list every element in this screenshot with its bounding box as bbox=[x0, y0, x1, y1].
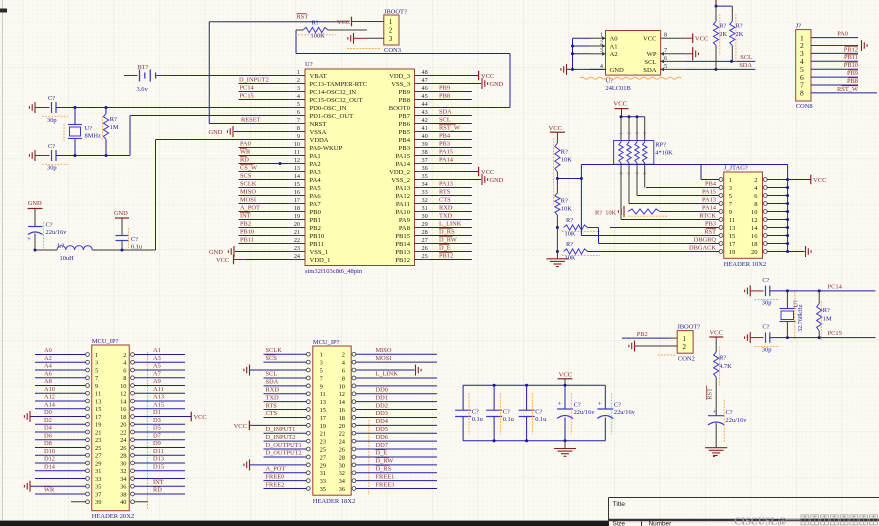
svg-text:17: 17 bbox=[320, 415, 327, 422]
svg-text:PA13: PA13 bbox=[439, 180, 453, 187]
svg-text:CON2: CON2 bbox=[678, 356, 695, 363]
svg-text:29: 29 bbox=[320, 462, 326, 469]
svg-text:1: 1 bbox=[683, 335, 687, 343]
svg-text:PA7: PA7 bbox=[310, 201, 322, 208]
svg-text:U?: U? bbox=[305, 61, 313, 68]
svg-text:PB14: PB14 bbox=[395, 241, 410, 248]
svg-text:VSS_1: VSS_1 bbox=[310, 249, 329, 256]
svg-text:3.6v: 3.6v bbox=[137, 86, 149, 93]
svg-text:PA14: PA14 bbox=[396, 161, 411, 168]
svg-text:PB10: PB10 bbox=[240, 228, 254, 235]
svg-text:D_INPUT1: D_INPUT1 bbox=[266, 426, 296, 433]
svg-text:D13: D13 bbox=[153, 456, 164, 463]
svg-text:3: 3 bbox=[297, 85, 300, 92]
svg-text:PB11: PB11 bbox=[844, 54, 858, 61]
svg-text:A8: A8 bbox=[44, 378, 52, 385]
svg-text:VDD_1: VDD_1 bbox=[310, 257, 331, 264]
svg-text:RST: RST bbox=[707, 388, 714, 400]
svg-text:24LC01B: 24LC01B bbox=[606, 85, 631, 92]
svg-text:PD1-OSC_OUT: PD1-OSC_OUT bbox=[310, 113, 354, 120]
svg-text:10: 10 bbox=[339, 383, 345, 390]
svg-text:35: 35 bbox=[95, 484, 101, 491]
svg-text:PB1: PB1 bbox=[310, 217, 321, 224]
svg-text:PB10: PB10 bbox=[310, 233, 325, 240]
svg-text:11: 11 bbox=[294, 149, 300, 156]
svg-text:13: 13 bbox=[95, 398, 101, 405]
svg-text:4: 4 bbox=[600, 63, 603, 70]
svg-text:SCLK: SCLK bbox=[266, 347, 283, 354]
svg-text:VCC: VCC bbox=[695, 36, 709, 43]
svg-text:MOSI: MOSI bbox=[376, 355, 392, 362]
svg-text:C?: C? bbox=[574, 401, 581, 408]
svg-text:48: 48 bbox=[422, 69, 428, 76]
svg-text:R?: R? bbox=[736, 23, 743, 30]
svg-text:11: 11 bbox=[320, 391, 326, 398]
svg-text:A2: A2 bbox=[44, 355, 52, 362]
svg-text:VSS_2: VSS_2 bbox=[391, 177, 410, 184]
svg-text:32: 32 bbox=[120, 468, 126, 475]
svg-text:22: 22 bbox=[120, 429, 126, 436]
svg-text:L_LINK: L_LINK bbox=[376, 371, 399, 378]
svg-text:8: 8 bbox=[664, 32, 667, 39]
svg-text:SDA: SDA bbox=[739, 62, 752, 69]
svg-text:Title: Title bbox=[613, 501, 626, 508]
svg-text:WR: WR bbox=[44, 487, 55, 494]
svg-text:Number: Number bbox=[649, 520, 673, 526]
svg-text:26: 26 bbox=[422, 245, 428, 252]
svg-text:C?: C? bbox=[472, 408, 479, 415]
svg-text:C?: C? bbox=[726, 409, 733, 416]
svg-text:INT: INT bbox=[153, 479, 164, 486]
svg-text:PA15: PA15 bbox=[439, 148, 453, 155]
svg-text:24: 24 bbox=[120, 437, 127, 444]
svg-text:CON8: CON8 bbox=[796, 103, 813, 110]
svg-text:20: 20 bbox=[120, 422, 126, 429]
svg-text:R?: R? bbox=[566, 217, 573, 224]
svg-text:26: 26 bbox=[339, 446, 345, 453]
svg-text:32: 32 bbox=[339, 470, 345, 477]
svg-text:1: 1 bbox=[297, 69, 300, 76]
svg-text:RP?: RP? bbox=[655, 142, 666, 149]
svg-text:18: 18 bbox=[339, 415, 345, 422]
svg-text:14: 14 bbox=[120, 398, 127, 405]
svg-text:40: 40 bbox=[120, 499, 126, 506]
svg-text:A1: A1 bbox=[153, 347, 161, 354]
svg-text:8: 8 bbox=[754, 201, 757, 208]
svg-text:4*10K: 4*10K bbox=[655, 149, 673, 156]
svg-text:FREE3: FREE3 bbox=[376, 481, 395, 488]
svg-text:L?: L? bbox=[58, 243, 65, 250]
svg-text:SDA: SDA bbox=[439, 108, 452, 115]
svg-text:A1: A1 bbox=[610, 43, 618, 50]
svg-text:RST: RST bbox=[704, 228, 716, 235]
svg-text:C?: C? bbox=[762, 277, 769, 284]
svg-text:+: + bbox=[27, 235, 31, 243]
svg-text:1: 1 bbox=[95, 352, 98, 359]
svg-text:D3: D3 bbox=[153, 417, 161, 424]
svg-text:D6: D6 bbox=[44, 432, 52, 439]
svg-text:C?: C? bbox=[762, 324, 769, 331]
svg-text:VCC: VCC bbox=[337, 19, 350, 26]
svg-text:10: 10 bbox=[120, 383, 126, 390]
svg-text:VCC: VCC bbox=[709, 330, 723, 337]
svg-text:5: 5 bbox=[320, 367, 323, 374]
svg-text:PB11: PB11 bbox=[240, 236, 254, 243]
svg-text:VCC: VCC bbox=[614, 101, 628, 108]
svg-text:PB8: PB8 bbox=[847, 78, 858, 85]
svg-text:22u/16v: 22u/16v bbox=[726, 417, 748, 424]
svg-text:D_OUTPUT1: D_OUTPUT1 bbox=[266, 442, 302, 449]
svg-text:PB4: PB4 bbox=[439, 132, 451, 139]
svg-text:9: 9 bbox=[95, 383, 98, 390]
svg-text:33: 33 bbox=[320, 478, 326, 485]
svg-text:7: 7 bbox=[297, 117, 300, 124]
svg-text:VCC: VCC bbox=[481, 169, 494, 176]
svg-text:PA9: PA9 bbox=[399, 217, 411, 224]
svg-text:2: 2 bbox=[754, 177, 757, 184]
svg-text:FREE2: FREE2 bbox=[266, 481, 285, 488]
svg-text:25: 25 bbox=[320, 446, 326, 453]
svg-text:PB3: PB3 bbox=[439, 140, 450, 147]
svg-text:29: 29 bbox=[95, 460, 101, 467]
svg-text:D11: D11 bbox=[153, 448, 164, 455]
svg-text:A14: A14 bbox=[44, 401, 56, 408]
svg-text:D5: D5 bbox=[153, 425, 161, 432]
svg-text:SCS: SCS bbox=[240, 172, 252, 179]
svg-text:10K: 10K bbox=[561, 157, 572, 164]
svg-text:D_E: D_E bbox=[376, 450, 388, 457]
svg-text:PB12: PB12 bbox=[395, 257, 410, 264]
svg-text:VCC: VCC bbox=[549, 125, 563, 132]
svg-text:MCU_IP?: MCU_IP? bbox=[92, 338, 119, 345]
svg-text:29: 29 bbox=[422, 221, 428, 228]
svg-text:19: 19 bbox=[95, 422, 101, 429]
svg-text:25: 25 bbox=[95, 445, 101, 452]
svg-text:MISO: MISO bbox=[240, 188, 256, 195]
svg-text:CON3: CON3 bbox=[384, 47, 401, 54]
svg-text:PB7: PB7 bbox=[399, 113, 411, 120]
svg-text:13: 13 bbox=[294, 165, 300, 172]
svg-text:D15: D15 bbox=[153, 463, 164, 470]
svg-text:18: 18 bbox=[120, 414, 126, 421]
svg-text:R?: R? bbox=[561, 149, 568, 156]
svg-text:C?: C? bbox=[131, 236, 138, 243]
svg-text:PA13: PA13 bbox=[702, 196, 716, 203]
svg-text:21: 21 bbox=[95, 429, 101, 436]
svg-text:FREE0: FREE0 bbox=[266, 473, 285, 480]
svg-text:BOOT0: BOOT0 bbox=[389, 105, 411, 112]
svg-text:PC13-TAMPER-RTC: PC13-TAMPER-RTC bbox=[310, 81, 368, 88]
svg-text:47: 47 bbox=[422, 77, 428, 84]
svg-text:12: 12 bbox=[339, 391, 345, 398]
svg-text:A2: A2 bbox=[610, 51, 618, 58]
svg-text:VCC: VCC bbox=[813, 177, 827, 184]
svg-text:17: 17 bbox=[294, 197, 300, 204]
svg-text:0.1u: 0.1u bbox=[503, 416, 515, 423]
svg-text:PB8: PB8 bbox=[399, 97, 411, 104]
svg-text:11: 11 bbox=[729, 217, 735, 224]
svg-text:D0: D0 bbox=[44, 409, 52, 416]
svg-text:17: 17 bbox=[729, 241, 736, 248]
svg-text:31: 31 bbox=[320, 470, 326, 477]
svg-text:28: 28 bbox=[339, 454, 345, 461]
svg-text:PB9: PB9 bbox=[399, 89, 411, 96]
svg-text:37: 37 bbox=[95, 491, 102, 498]
svg-text:PA2: PA2 bbox=[310, 161, 321, 168]
svg-text:41: 41 bbox=[422, 125, 428, 132]
svg-text:PC15: PC15 bbox=[240, 92, 254, 99]
svg-text:VCC: VCC bbox=[559, 371, 573, 378]
svg-text:C?: C? bbox=[48, 143, 55, 150]
svg-text:PC15: PC15 bbox=[828, 330, 842, 337]
svg-text:A11: A11 bbox=[153, 386, 164, 393]
svg-text:C?: C? bbox=[535, 408, 542, 415]
svg-text:22: 22 bbox=[294, 237, 300, 244]
svg-text:21: 21 bbox=[294, 229, 300, 236]
svg-text:1: 1 bbox=[389, 18, 393, 26]
svg-text:R?: R? bbox=[561, 198, 568, 205]
svg-text:CISCUSL@: CISCUSL@ bbox=[734, 517, 787, 526]
svg-text:JBOOT?: JBOOT? bbox=[384, 9, 407, 16]
svg-text:2: 2 bbox=[389, 27, 393, 35]
svg-text:30p: 30p bbox=[47, 117, 57, 124]
svg-text:PA0: PA0 bbox=[837, 31, 848, 38]
svg-text:13: 13 bbox=[320, 399, 326, 406]
svg-text:J?: J? bbox=[796, 23, 802, 30]
svg-text:D1: D1 bbox=[153, 409, 161, 416]
svg-text:R? 10K: R? 10K bbox=[595, 209, 617, 216]
svg-text:SCL: SCL bbox=[266, 371, 278, 378]
svg-text:24: 24 bbox=[294, 253, 300, 260]
svg-text:PC14: PC14 bbox=[240, 84, 255, 91]
svg-text:D_OUTPUT2: D_OUTPUT2 bbox=[266, 450, 302, 457]
svg-text:D_INPUT2: D_INPUT2 bbox=[239, 76, 269, 83]
svg-text:10uH: 10uH bbox=[60, 255, 75, 262]
svg-text:D2: D2 bbox=[44, 417, 52, 424]
svg-text:PA15: PA15 bbox=[702, 188, 716, 195]
svg-text:0.1u: 0.1u bbox=[131, 244, 143, 251]
svg-text:PA14: PA14 bbox=[439, 156, 454, 163]
svg-text:C?: C? bbox=[48, 95, 55, 102]
svg-text:4: 4 bbox=[297, 93, 300, 100]
svg-text:A9: A9 bbox=[153, 378, 161, 385]
svg-text:DD4: DD4 bbox=[376, 418, 389, 425]
svg-text:D_RW: D_RW bbox=[439, 236, 458, 243]
svg-text:PA0: PA0 bbox=[240, 140, 251, 147]
svg-text:D_RS: D_RS bbox=[439, 228, 455, 235]
svg-text:23: 23 bbox=[294, 245, 300, 252]
svg-text:3: 3 bbox=[95, 360, 98, 367]
svg-text:VCC: VCC bbox=[216, 257, 229, 264]
svg-text:VCC: VCC bbox=[481, 73, 494, 80]
svg-text:6: 6 bbox=[664, 55, 667, 62]
svg-text:45: 45 bbox=[422, 93, 428, 100]
svg-text:PB13: PB13 bbox=[395, 249, 410, 256]
svg-text:RST_W: RST_W bbox=[837, 86, 859, 93]
svg-text:19: 19 bbox=[320, 423, 326, 430]
svg-text:27: 27 bbox=[320, 454, 327, 461]
svg-text:1: 1 bbox=[729, 177, 732, 184]
svg-text:RESET: RESET bbox=[241, 116, 261, 123]
svg-text:PB3: PB3 bbox=[705, 220, 716, 227]
svg-text:BT?: BT? bbox=[138, 64, 149, 71]
svg-text:16: 16 bbox=[120, 406, 126, 413]
svg-text:PB11: PB11 bbox=[310, 241, 324, 248]
svg-text:SCL: SCL bbox=[740, 54, 752, 61]
svg-text:A3: A3 bbox=[153, 355, 161, 362]
svg-text:3: 3 bbox=[389, 35, 393, 43]
svg-text:36: 36 bbox=[120, 484, 126, 491]
svg-text:38: 38 bbox=[422, 149, 428, 156]
svg-text:6: 6 bbox=[297, 109, 300, 116]
svg-text:VDD_2: VDD_2 bbox=[389, 169, 410, 176]
svg-text:VSS_3: VSS_3 bbox=[391, 81, 410, 88]
svg-text:RST: RST bbox=[297, 14, 309, 21]
svg-text:DD7: DD7 bbox=[376, 442, 389, 449]
svg-text:32.768kHz: 32.768kHz bbox=[797, 304, 804, 332]
svg-text:+: + bbox=[713, 408, 717, 416]
svg-text:0.1u: 0.1u bbox=[472, 416, 484, 423]
svg-text:A_POT: A_POT bbox=[266, 465, 286, 472]
svg-text:15: 15 bbox=[729, 233, 736, 240]
svg-text:18: 18 bbox=[294, 205, 300, 212]
svg-text:34: 34 bbox=[339, 478, 346, 485]
svg-text:9: 9 bbox=[729, 209, 732, 216]
svg-text:10K: 10K bbox=[561, 206, 572, 213]
svg-text:R?: R? bbox=[110, 116, 117, 123]
svg-text:RD: RD bbox=[153, 487, 162, 494]
svg-text:J_JTAG?: J_JTAG? bbox=[724, 164, 748, 171]
svg-text:10: 10 bbox=[294, 141, 300, 148]
svg-text:DD5: DD5 bbox=[376, 426, 388, 433]
svg-text:2: 2 bbox=[342, 352, 345, 359]
svg-text:RTS: RTS bbox=[266, 402, 278, 409]
svg-text:NRST: NRST bbox=[310, 121, 327, 128]
svg-text:DD0: DD0 bbox=[376, 386, 388, 393]
svg-text:JBOOT?: JBOOT? bbox=[677, 323, 700, 330]
svg-text:DBGRQ: DBGRQ bbox=[694, 236, 717, 243]
svg-text:37: 37 bbox=[422, 157, 428, 164]
svg-text:FREE1: FREE1 bbox=[376, 473, 395, 480]
svg-text:RXD: RXD bbox=[266, 386, 280, 393]
svg-text:GND: GND bbox=[490, 177, 504, 184]
svg-text:RST_W: RST_W bbox=[439, 124, 461, 131]
svg-text:SCL: SCL bbox=[439, 116, 451, 123]
svg-text:31: 31 bbox=[95, 468, 101, 475]
svg-text:44: 44 bbox=[422, 101, 428, 108]
svg-text:36: 36 bbox=[339, 486, 345, 493]
svg-text:22u/16v: 22u/16v bbox=[574, 409, 596, 416]
svg-text:12: 12 bbox=[120, 391, 126, 398]
svg-text:VSSA: VSSA bbox=[310, 129, 327, 136]
svg-text:R?: R? bbox=[823, 307, 830, 314]
svg-text:PA8: PA8 bbox=[399, 225, 411, 232]
svg-text:PB12: PB12 bbox=[439, 252, 453, 259]
svg-text:14: 14 bbox=[294, 173, 300, 180]
svg-text:PA6: PA6 bbox=[310, 193, 322, 200]
svg-text:22u/16v: 22u/16v bbox=[614, 409, 636, 416]
svg-text:1M: 1M bbox=[823, 315, 832, 322]
svg-text:CTS: CTS bbox=[266, 410, 278, 417]
svg-text:PB2: PB2 bbox=[637, 331, 648, 338]
svg-text:10: 10 bbox=[751, 209, 758, 216]
svg-text:D8: D8 bbox=[44, 440, 52, 447]
svg-text:RXD: RXD bbox=[439, 204, 453, 211]
svg-text:43: 43 bbox=[422, 109, 428, 116]
svg-text:3: 3 bbox=[320, 360, 323, 367]
svg-text:Size: Size bbox=[613, 520, 626, 526]
svg-text:D10: D10 bbox=[44, 448, 55, 455]
svg-text:PA14: PA14 bbox=[702, 204, 717, 211]
svg-text:U?: U? bbox=[85, 125, 93, 132]
svg-text:39: 39 bbox=[95, 499, 101, 506]
svg-text:MISO: MISO bbox=[376, 347, 392, 354]
svg-text:PA12: PA12 bbox=[396, 193, 410, 200]
svg-text:15: 15 bbox=[95, 406, 101, 413]
svg-text:PB3: PB3 bbox=[399, 145, 411, 152]
svg-text:2: 2 bbox=[297, 77, 300, 84]
svg-text:30p: 30p bbox=[762, 346, 772, 353]
svg-text:R?: R? bbox=[719, 354, 726, 361]
svg-text:38: 38 bbox=[120, 491, 126, 498]
svg-text:100K: 100K bbox=[311, 33, 326, 40]
svg-text:28: 28 bbox=[422, 229, 428, 236]
svg-text:PA13: PA13 bbox=[396, 185, 411, 192]
svg-text:D12: D12 bbox=[44, 456, 55, 463]
svg-text:CS_W: CS_W bbox=[240, 164, 258, 171]
svg-text:A6: A6 bbox=[44, 370, 52, 377]
svg-text:9: 9 bbox=[297, 133, 300, 140]
svg-text:PA4: PA4 bbox=[310, 177, 322, 184]
svg-text:TXD: TXD bbox=[439, 212, 453, 219]
svg-text:D_INPUT2: D_INPUT2 bbox=[266, 434, 296, 441]
svg-text:20: 20 bbox=[339, 423, 345, 430]
svg-text:D4: D4 bbox=[44, 425, 53, 432]
svg-text:A15: A15 bbox=[153, 401, 164, 408]
svg-text:VCC: VCC bbox=[643, 36, 657, 43]
svg-text:30p: 30p bbox=[762, 300, 772, 307]
svg-text:R?: R? bbox=[312, 20, 319, 27]
svg-text:23: 23 bbox=[95, 437, 101, 444]
svg-text:6: 6 bbox=[123, 367, 126, 374]
svg-text:RTS: RTS bbox=[439, 188, 451, 195]
svg-text:GND: GND bbox=[490, 81, 504, 88]
svg-text:PB6: PB6 bbox=[399, 121, 411, 128]
svg-text:PB5: PB5 bbox=[399, 129, 411, 136]
svg-text:20: 20 bbox=[294, 221, 300, 228]
svg-text:GND: GND bbox=[209, 249, 223, 256]
svg-text:12: 12 bbox=[751, 217, 758, 224]
svg-text:D_RS: D_RS bbox=[376, 465, 392, 472]
svg-text:28: 28 bbox=[120, 453, 126, 460]
svg-text:DD2: DD2 bbox=[376, 402, 388, 409]
svg-text:+: + bbox=[558, 400, 562, 408]
svg-text:SCLK: SCLK bbox=[240, 180, 257, 187]
svg-text:MCU_IP?: MCU_IP? bbox=[313, 339, 340, 346]
svg-text:46: 46 bbox=[422, 85, 428, 92]
svg-text:11: 11 bbox=[95, 391, 101, 398]
svg-text:5: 5 bbox=[95, 367, 98, 374]
svg-text:18: 18 bbox=[751, 241, 758, 248]
svg-text:7: 7 bbox=[664, 47, 667, 54]
svg-text:PB2: PB2 bbox=[310, 225, 321, 232]
svg-text:R?: R? bbox=[566, 241, 573, 248]
svg-text:30: 30 bbox=[120, 460, 126, 467]
svg-text:30: 30 bbox=[422, 213, 428, 220]
svg-text:2K: 2K bbox=[736, 31, 744, 38]
svg-text:PB12: PB12 bbox=[844, 46, 858, 53]
svg-text:D_E: D_E bbox=[439, 244, 451, 251]
